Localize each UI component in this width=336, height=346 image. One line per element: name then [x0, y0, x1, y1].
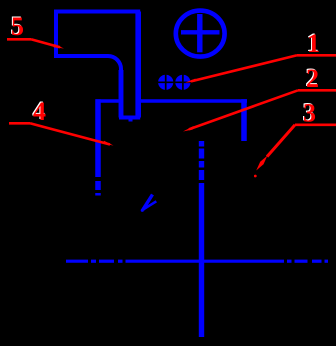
housing left wall [95, 99, 101, 195]
svg-text:5: 5 [11, 12, 24, 41]
part 5 cap profile [56, 12, 138, 118]
housing right wall [241, 99, 247, 141]
housing plate right segment [140, 99, 247, 103]
callout 5 label [10, 11, 24, 41]
callout 2 leader [183, 90, 336, 131]
callout 4 label [32, 96, 46, 126]
callout 3 label [302, 98, 316, 128]
callout 3 leader [254, 125, 336, 178]
crosshair symbol U-top (circle with cross) [176, 11, 225, 57]
svg-text:3: 3 [303, 99, 316, 128]
horizontal centerline [66, 260, 328, 263]
stud bottom nub [129, 119, 133, 121]
blue direction arrow [141, 195, 157, 212]
small rivet circles pair [157, 74, 191, 91]
svg-text:4: 4 [33, 97, 46, 126]
svg-text:1: 1 [307, 29, 320, 58]
callout 1 leader [185, 55, 336, 83]
svg-text:2: 2 [306, 64, 319, 93]
callout 1 label [306, 28, 320, 58]
callout 5 leader [7, 39, 64, 48]
callout 2 label [305, 63, 319, 93]
callout 4 leader [9, 123, 114, 145]
housing plate left segment [96, 99, 119, 103]
vertical centerline [199, 141, 204, 337]
